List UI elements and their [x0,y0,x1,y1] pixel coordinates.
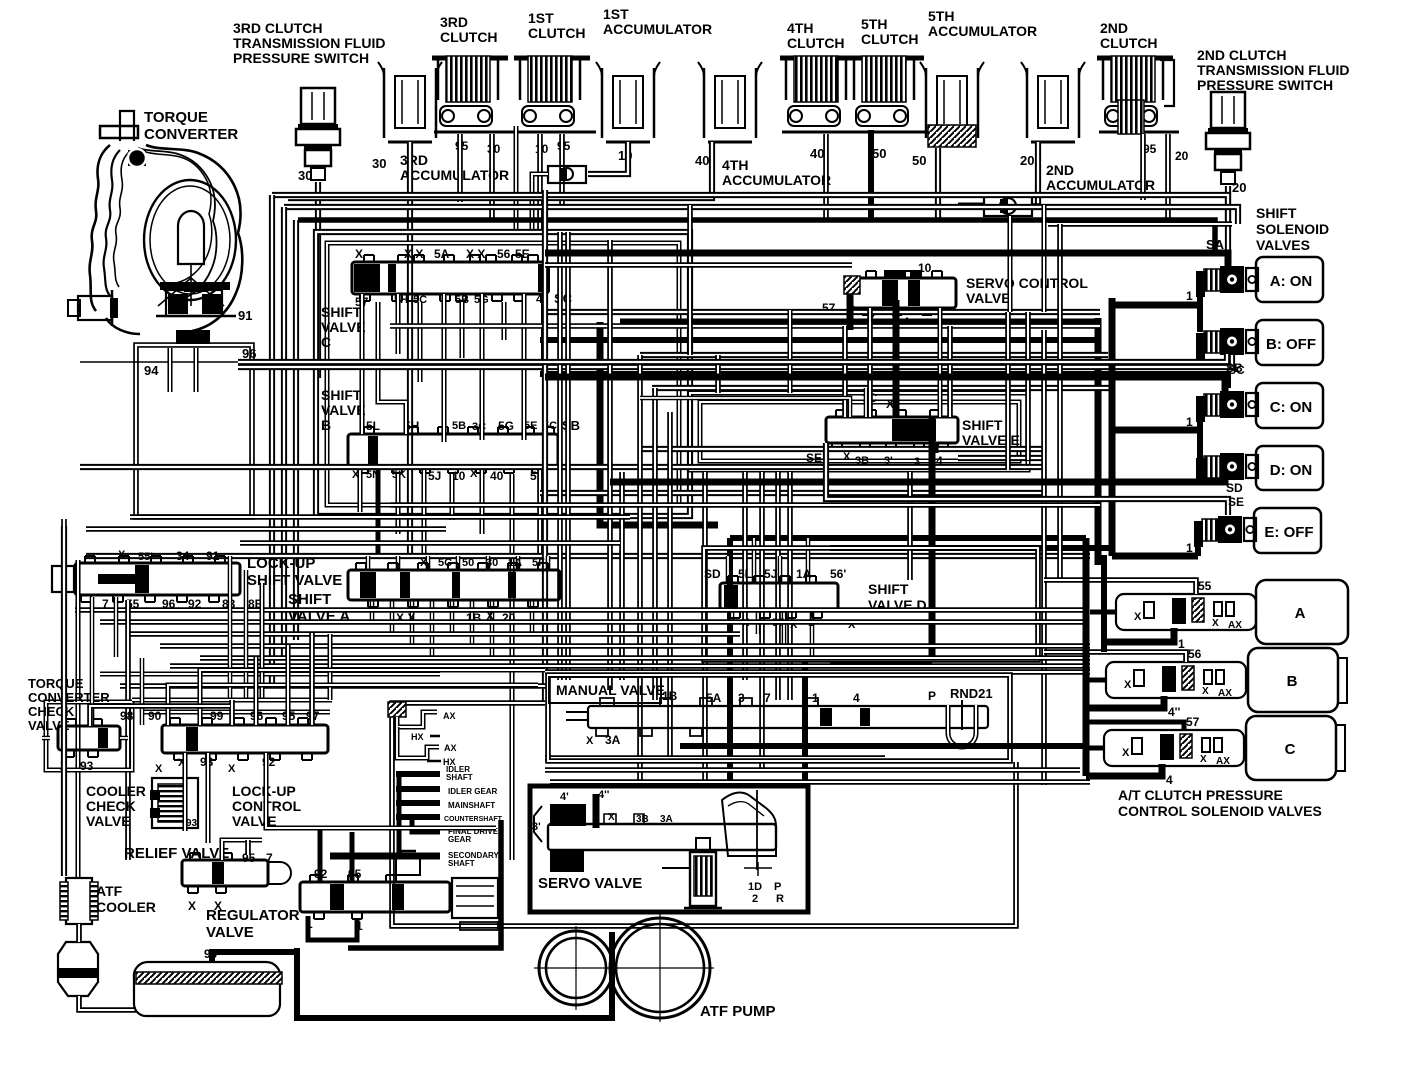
svg-text:SERVO VALVE: SERVO VALVE [538,875,642,892]
labels shift valve C bottom ports [355,291,573,309]
svg-text:X: X [188,899,196,913]
pcs valve B box [1248,648,1347,712]
svg-text:5L: 5L [738,567,752,581]
svg-text:SE: SE [806,451,822,465]
1st accumulator [596,62,660,142]
labels relief [188,851,273,913]
svg-text:56: 56 [497,247,511,261]
pipe mid h556 [86,555,1090,557]
svg-text:AX: AX [443,711,456,721]
atf funnel [58,942,98,996]
svg-text:1: 1 [1186,415,1193,429]
labels shift valve B bottom ports [352,468,544,483]
svg-text:90: 90 [148,709,162,723]
svg-text:X: X [586,735,594,747]
pipe h686 [120,685,548,687]
svg-text:E: OFF: E: OFF [1264,524,1313,541]
svg-text:AX: AX [444,743,457,753]
pipe v950 [949,326,951,417]
svg-text:5E: 5E [515,247,530,261]
pipe H1 top bundle [272,195,1228,250]
shift E drops up [640,388,935,453]
left enclosure lines [64,519,128,878]
label cooler check valve [86,783,146,829]
label pcs valves [1118,787,1322,819]
label shift valve D [868,581,927,613]
2nd accumulator [1021,62,1085,142]
3rd accumulator [378,62,442,142]
label 96-tc [242,346,256,361]
label lock-up shift valve [247,555,342,589]
pipe accum4 down [288,142,712,198]
label 94 [144,363,159,378]
svg-text:R: R [776,893,784,905]
svg-text:IDLER GEAR: IDLER GEAR [448,787,498,796]
pipe SB feed [238,355,1232,367]
pipe v640 [639,355,641,786]
pipe accum2 down [1037,142,1039,204]
pipe h745 thick [680,743,1088,749]
pipe clutch2 a [1142,134,1144,200]
label 40 accum4 [695,153,709,168]
svg-text:5C: 5C [438,557,452,569]
svg-text:20: 20 [1020,153,1034,168]
label SE right [1228,495,1244,509]
svg-text:X: X [355,247,363,261]
pipe v790 [789,310,791,700]
pipe v610 [609,240,611,690]
label 99 pan [204,947,218,961]
pipe v1010 [1008,216,1010,470]
pipe h610 [75,609,1085,611]
pcs valve A box [1256,580,1348,644]
pipe v718 [717,355,719,393]
shift valve C-B enclosure [316,232,690,516]
svg-text:AX: AX [1218,688,1232,699]
svg-text:5J: 5J [428,469,441,483]
label RND21 [950,686,993,701]
pcs valve B assembly [1106,647,1246,699]
shift valve E enclosure [690,393,1028,470]
pipe h505 [390,504,1100,506]
4th accumulator [698,62,762,142]
svg-text:50: 50 [462,557,474,569]
pipe mid h449 [640,448,1044,450]
svg-text:34: 34 [176,549,190,563]
pcs valve C assembly [1104,715,1244,767]
pipe v910 [909,472,911,580]
pipe v568 [567,232,569,680]
labels shift valve E bottom [806,451,943,468]
label 2nd clutch [1100,20,1158,51]
svg-text:55: 55 [1198,579,1212,593]
label 3rd clutch [440,14,498,45]
manual valve enclosure [548,675,1010,761]
pipe h543 [240,542,620,544]
svg-text:1: 1 [1186,289,1193,303]
svg-text:X: X [1122,747,1130,759]
svg-text:ATF PUMP: ATF PUMP [700,1003,776,1020]
solenoid valve D connector [1196,453,1258,484]
label regulator valve [206,907,300,941]
svg-text:50: 50 [912,153,926,168]
labels shift valve C top ports [355,247,530,261]
pipe h634 [130,633,740,635]
torque converter housing box [80,330,252,517]
solenoid valve A connector [1196,266,1258,297]
svg-text:30: 30 [298,168,312,183]
servo fork [722,790,776,876]
pcs left thick verticals [1086,538,1116,776]
label 10 accum1 [618,148,632,163]
2nd clutch transmission fluid pressure switch [1206,92,1250,184]
label 95 30 clutch3 [455,139,501,156]
solenoid valve A box [1256,257,1323,302]
pipe v545 [544,190,546,702]
labels shift valve B top ports [366,418,580,433]
shaft stubs AX HX [397,711,457,767]
regulator valve [300,875,450,919]
svg-text:56: 56 [1188,647,1202,661]
svg-text:SHAFT: SHAFT [446,773,473,782]
pipe regulator up thick [320,826,352,882]
label torque converter [144,109,238,143]
pipe pcs B [1044,652,1186,719]
label 2nd accumulator [1046,162,1155,193]
label 30 psw3 [298,168,312,183]
svg-text:AX: AX [1216,756,1230,767]
servo inner cylinder [662,838,722,908]
pipe v560 [559,232,561,680]
pipe mid h467 [80,466,1044,468]
svg-text:X: X [155,763,163,775]
svg-text:96: 96 [242,346,256,361]
svg-text:X: X [843,451,851,463]
pipe h712 left [140,711,330,713]
label SD [1226,481,1243,495]
svg-text:3: 3 [738,691,745,705]
pipe clutch3 a [459,134,461,202]
svg-text:SB: SB [562,418,580,433]
label SA [1206,237,1225,252]
lock-up control valve [162,718,328,760]
pipe SC feed thick [540,374,1228,388]
svg-text:40: 40 [490,469,504,483]
svg-text:X: X [118,549,126,561]
pipe v845 [844,326,846,417]
label shift solenoid valves [1256,205,1329,253]
solenoid valve B connector [1196,328,1258,359]
svg-text:1D: 1D [748,881,762,893]
pipe v1060 [1059,224,1061,580]
pipe v870 [869,310,871,417]
pipe pcs A [1044,580,1196,651]
label shift valve E [962,417,1020,448]
pipe mid h355 [640,354,1108,356]
svg-text:X: X [1212,618,1219,629]
label tc check valve [28,676,110,733]
labels servo control bottom [822,301,943,330]
solenoid valve C connector [1196,391,1258,422]
label 10 95 clutch1 [535,139,571,156]
svg-text:SE: SE [1228,495,1244,509]
label 4th accumulator [722,157,831,188]
atf pump circle right [606,914,714,1022]
svg-text:30: 30 [372,156,386,171]
label relief valve [124,845,229,862]
pipe left v to pan [63,526,65,876]
svg-text:40: 40 [695,153,709,168]
label atf cooler [96,883,156,915]
pcs valve A assembly [1116,579,1256,631]
svg-text:7: 7 [764,691,771,705]
3rd clutch transmission fluid pressure switch [296,88,340,180]
pipe SA feed thick [545,253,1228,270]
svg-text:B: OFF: B: OFF [1266,336,1316,353]
label 5th accumulator [928,8,1037,39]
label 1st accumulator [603,6,712,37]
svg-text:MANUAL VALVE: MANUAL VALVE [556,682,665,698]
svg-text:5A: 5A [434,247,450,261]
label 95 clutch2 [1143,142,1157,156]
svg-text:X: X [1200,754,1207,765]
pipe mid h388 [652,387,1112,389]
pipe funnel-pan [79,996,136,1010]
svg-text:50: 50 [872,146,886,161]
labels shift D bottom [742,617,856,631]
pipe v622 [621,472,623,680]
svg-text:B: B [1287,673,1298,690]
pipe clutch2 b [1167,134,1169,220]
pipe B1 feed thick [1112,292,1200,556]
pipe v1028 [1027,312,1029,460]
svg-text:X: X [228,763,236,775]
pipe mid h493 [540,492,1045,494]
label manual valve [549,677,665,703]
pipe mid h326 [390,322,1100,326]
tc check enclosure [46,702,132,770]
svg-text:GEAR: GEAR [448,835,471,844]
pipe mid h548 thick [830,545,1112,551]
pipe lockup tops [168,633,545,725]
svg-text:20: 20 [1175,149,1189,163]
svg-text:X: X [1202,686,1209,697]
pcs valve C box [1246,716,1345,780]
servo control valve [844,270,956,315]
svg-text:COUNTERSHAFT: COUNTERSHAFT [444,816,503,823]
servo valve body [534,789,776,872]
svg-text:3': 3' [532,821,541,833]
pipe v778 [777,472,779,700]
svg-text:X X: X X [466,247,485,261]
labels regulator [306,867,363,933]
hatched plug [388,702,406,717]
svg-text:P: P [774,881,781,893]
labels shift A ports [396,557,545,625]
svg-text:4': 4' [560,791,569,803]
1st clutch [514,56,596,132]
labels lockup bottom ports [102,597,263,611]
cooler check valve [150,763,198,829]
pipe mid h312 [545,311,1100,313]
pipe h529 [86,528,446,530]
pipe H2 top bundle [284,207,1238,224]
shift D comb down [732,611,812,658]
labels lockup top ports [118,549,220,563]
pipe left bundle v1 [271,195,273,688]
svg-text:1: 1 [1186,541,1193,555]
label servo control valve [966,275,1088,306]
label 3prime [532,821,541,833]
label lock-up control valve [232,783,302,829]
svg-text:3B: 3B [636,814,649,825]
servo valve enclosure [530,786,808,912]
pipe accum5 down [937,148,939,220]
pipe H3 top bundle thick [298,220,1215,253]
label 30 accum3 [372,156,386,171]
label 20 accum2 [1020,153,1034,168]
svg-text:91: 91 [206,549,220,563]
svg-text:1A: 1A [796,567,812,581]
label 1 B [1186,289,1193,303]
svg-text:1: 1 [812,691,819,705]
pipe mid h340 thick [540,337,1098,343]
pipe v730 thick [727,538,733,786]
svg-text:99: 99 [210,709,224,723]
pipe v762 [761,472,763,770]
pipe lockup drops [185,700,496,843]
svg-text:94: 94 [144,363,159,378]
svg-text:4'': 4'' [1168,705,1181,719]
torque converter [68,111,242,334]
shift valve E [826,410,958,450]
labels servo 1D2 PR [748,881,784,905]
svg-text:40: 40 [810,146,824,161]
pipe lockup extra [92,597,330,726]
RND detent [948,700,976,747]
pipe clutch3 b [491,134,493,218]
label 50 accum5 [912,153,926,168]
pipe v670 [669,412,671,760]
pipe h672 [545,671,1090,673]
5th accumulator [920,62,984,147]
2nd clutch [1097,56,1179,134]
labels tc check below [60,759,94,773]
manual valve body [566,698,988,736]
svg-text:10: 10 [918,261,932,275]
relief valve [182,853,291,893]
pipe h265 [545,264,852,266]
pipe h700 left [132,699,332,701]
svg-text:91: 91 [238,308,252,323]
4th clutch [780,56,862,132]
labels manual valve ports [662,689,936,705]
svg-text:RND21: RND21 [950,686,993,701]
regulator thick frame [308,820,501,948]
3rd clutch [432,56,514,132]
svg-text:4: 4 [1166,773,1173,787]
pipe pan right thick [212,932,612,1018]
svg-text:AX: AX [1228,620,1242,631]
svg-text:SC: SC [1228,363,1245,377]
svg-text:SHAFT: SHAFT [448,859,475,868]
svg-text:1A: 1A [508,557,522,569]
pipe v230 mid [230,556,262,702]
svg-text:56': 56' [830,567,846,581]
pipe h770 [545,769,1080,771]
svg-text:X: X [1124,679,1132,691]
svg-text:RELIEF VALVE: RELIEF VALVE [124,845,229,862]
svg-text:5J: 5J [764,567,777,581]
label 1 E [1186,541,1193,555]
svg-text:C: C [1285,741,1296,758]
svg-text:93: 93 [80,759,94,773]
pipe accum3 down [409,142,411,556]
pipe D1 feed thick [1112,418,1200,458]
svg-text:1: 1 [1178,637,1185,651]
pipe h517 [130,516,630,518]
svg-text:D: ON: D: ON [1270,462,1313,479]
svg-text:5A: 5A [706,691,722,705]
svg-text:4'': 4'' [598,789,610,801]
labels lockup control bottom [178,755,276,775]
pipe h782 [550,781,1090,783]
atf pump circle left [534,926,618,1010]
pipe h674 left [100,673,440,675]
svg-text:3A: 3A [605,733,621,747]
solenoid valve B box [1256,320,1323,365]
pipe h646 [160,645,1090,647]
shift valve A [348,563,560,607]
labels shift valve E top [862,391,894,411]
label shift valve A [288,591,350,625]
pipe clutch1 a [516,126,540,232]
svg-text:SD: SD [1226,481,1243,495]
pipe h318 thick [600,318,1098,565]
pipe psw3 down [317,182,319,378]
label SB right [1226,361,1243,375]
pipe left bundle v3 [295,220,297,640]
shift A comb down [372,600,532,658]
lock-up shift valve [52,556,240,602]
svg-text:HX: HX [411,732,424,742]
shift valve C [352,255,550,301]
pipe accum1 down [588,142,628,174]
pipe relief links [222,840,262,860]
svg-text:SD: SD [704,567,721,581]
shaft list [330,765,503,868]
label 91 [238,308,252,323]
pipe v705 [704,472,706,786]
svg-text:A: ON: A: ON [1270,273,1313,290]
svg-text:20: 20 [1232,180,1246,195]
pipe h666 [170,665,1090,667]
svg-text:1B: 1B [662,689,678,703]
pipe SD feed thick [610,476,1225,482]
pipe psw2 down [1227,186,1229,220]
labels lockup control top [120,709,320,723]
label 50 clutch5 [872,146,886,161]
pipe tc check links [42,706,230,738]
regulator spring assembly [396,851,498,930]
svg-text:P: P [928,689,936,703]
pipes shift C to B comb thicker [362,294,544,442]
pipe SB feed [238,354,1227,362]
label shift valve C [321,304,366,350]
labels shift D top [704,567,846,581]
svg-text:93: 93 [186,818,198,829]
svg-text:X X: X X [404,247,423,261]
